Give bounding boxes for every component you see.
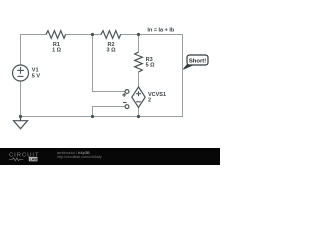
svg-text:3 Ω: 3 Ω: [107, 48, 117, 54]
svg-text:http://circuitlab.com/c4h5afy: http://circuitlab.com/c4h5afy: [57, 155, 102, 159]
svg-text:2: 2: [148, 97, 151, 103]
svg-text:Short!: Short!: [189, 59, 206, 65]
svg-text:5 Ω: 5 Ω: [146, 63, 156, 69]
svg-text:LAB: LAB: [30, 158, 38, 162]
svg-text:5 V: 5 V: [32, 73, 41, 79]
svg-text:1 Ω: 1 Ω: [52, 48, 62, 54]
svg-text:In = Ia + Ib: In = Ia + Ib: [147, 27, 175, 33]
